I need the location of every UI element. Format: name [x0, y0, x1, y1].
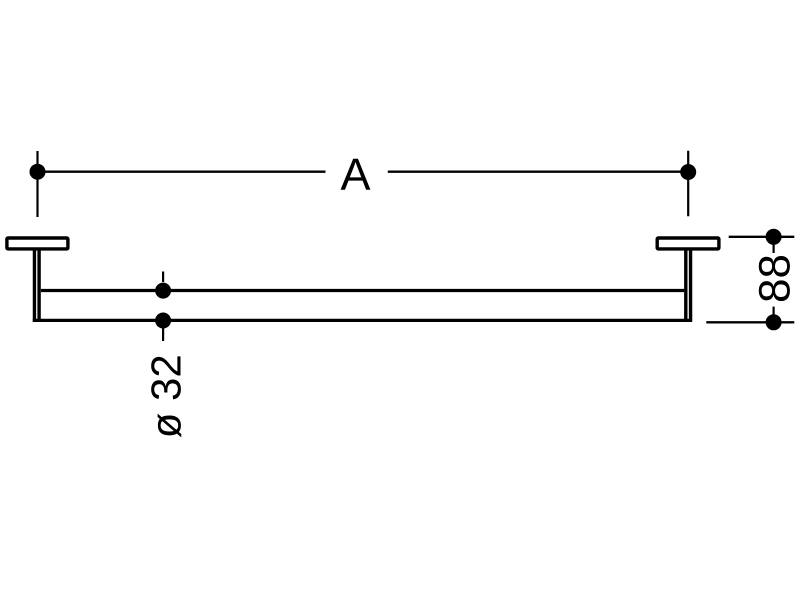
dimension A: left endpoint dot	[30, 164, 46, 180]
right post right line	[689, 250, 692, 322]
tick below top dot	[772, 244, 774, 253]
dimension line A: right segment	[388, 171, 688, 173]
left post left line	[33, 250, 36, 322]
left post right line	[37, 250, 40, 320]
label diameter 32 (rotated)	[151, 356, 181, 437]
right post left line	[684, 250, 687, 320]
tick below lower dot	[162, 327, 164, 341]
dimension 88: top leader line	[729, 236, 795, 238]
label A	[341, 159, 371, 190]
dimension 88: bottom leader line	[706, 321, 794, 323]
right wall plate	[657, 238, 719, 249]
label 88 (rotated)	[759, 256, 790, 301]
bar diameter: upper dot on bar top line	[155, 283, 171, 299]
bar diameter: lower dot on bar bottom line	[155, 313, 171, 329]
dimension A: right endpoint dot	[680, 164, 696, 180]
dimension A: left extension line	[36, 151, 38, 217]
bar bottom line	[33, 319, 692, 322]
tick above upper dot	[162, 272, 164, 283]
bar top line	[41, 289, 684, 292]
dimension line A: left segment	[38, 171, 326, 173]
dimension A: right extension line	[687, 151, 689, 217]
tick above bottom dot	[772, 307, 774, 315]
dimension 88: bottom dot	[766, 314, 782, 330]
dimension 88: top dot	[766, 229, 782, 245]
left wall plate	[7, 238, 68, 249]
